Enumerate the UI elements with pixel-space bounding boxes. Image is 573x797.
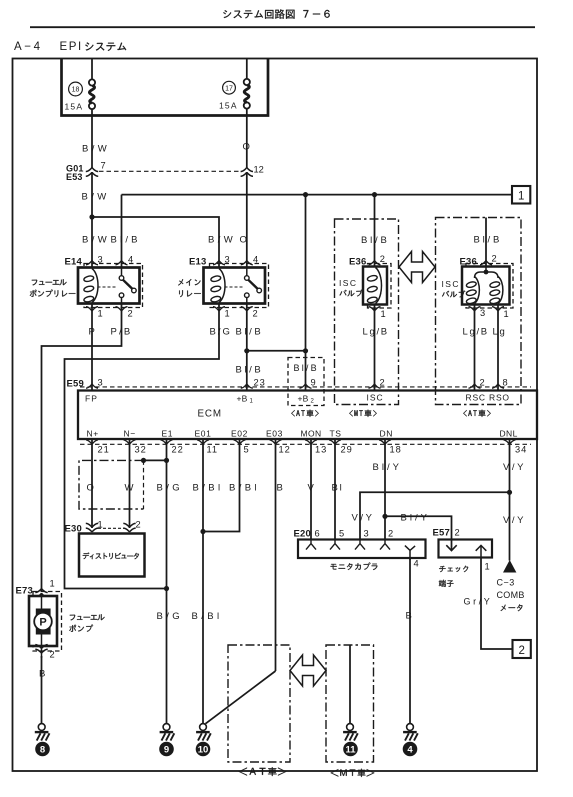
fuse17 circled number — [223, 81, 236, 94]
svg-text:COMB: COMB — [497, 590, 525, 600]
svg-text:B/Bl: B/Bl — [193, 483, 224, 494]
svg-text:Bl: Bl — [332, 483, 344, 494]
E14 switch arm — [123, 280, 133, 289]
pin E14-1 — [86, 307, 98, 312]
pin E13-1 — [213, 307, 225, 312]
svg-text:34: 34 — [515, 445, 527, 455]
svg-text:E53: E53 — [66, 172, 83, 182]
wire Bl/B AT valve feed — [485, 218, 487, 267]
wire Bl/B rail horizontal — [122, 194, 513, 196]
label フューエル — [32, 279, 67, 285]
E13 switch arm — [248, 280, 257, 289]
svg-text:MON: MON — [301, 429, 322, 439]
svg-text:2: 2 — [480, 378, 486, 388]
ECM bottom pin 29 — [329, 440, 341, 445]
svg-text:RSC RSO: RSC RSO — [466, 393, 510, 403]
svg-text:2: 2 — [388, 529, 393, 539]
svg-text:2: 2 — [455, 528, 460, 538]
wire O from fuse17 — [246, 109, 248, 168]
ground number 4 — [403, 742, 418, 757]
junction Bl/Y branch — [382, 514, 387, 519]
pin E13-3 — [213, 260, 225, 265]
svg-text:6: 6 — [315, 529, 320, 539]
wire Bl/B from E13 pin2 — [246, 304, 248, 391]
svg-text:2: 2 — [253, 309, 258, 319]
svg-text:3: 3 — [98, 378, 104, 388]
svg-text:E03: E03 — [266, 429, 283, 439]
section label システム — [85, 42, 126, 51]
ECM bottom pin 32 — [124, 440, 136, 445]
pump wire top — [41, 594, 43, 614]
svg-text:1: 1 — [518, 190, 524, 202]
svg-text:9: 9 — [164, 744, 169, 755]
pin E36AT-3 — [469, 307, 481, 312]
svg-text:B: B — [406, 611, 414, 622]
svg-text:E20: E20 — [294, 529, 312, 540]
svg-text:11: 11 — [345, 744, 356, 755]
svg-text:Bl/B: Bl/B — [236, 365, 264, 376]
wire to ground 11 — [349, 645, 351, 724]
ECM top pin ISC — [369, 384, 381, 389]
svg-text:Bl/Y: Bl/Y — [401, 513, 430, 524]
svg-text:EPI: EPI — [60, 41, 83, 53]
MT variant dash-dot box bottom — [326, 645, 374, 762]
ECM bottom pin 11 — [197, 440, 209, 445]
pin E13-2 — [241, 307, 253, 312]
wire B/W from fuse18 — [91, 109, 93, 168]
E14 switch bottom lead — [121, 298, 123, 304]
E30 connector dashed link — [98, 527, 124, 529]
svg-text:1: 1 — [98, 309, 103, 319]
svg-text:5: 5 — [244, 445, 250, 455]
wire variant link to E1 — [144, 459, 167, 461]
combination meter connector triangle — [503, 560, 516, 573]
ECM bottom pin 5 — [234, 440, 246, 445]
check terminal pin 1 fork — [476, 545, 487, 557]
svg-text:Bl/B: Bl/B — [361, 235, 390, 246]
E13 switch bottom lead — [246, 298, 248, 304]
svg-text:22: 22 — [172, 445, 184, 455]
wire W to distributor — [129, 439, 131, 528]
E13 switch fixed contact top — [245, 276, 250, 281]
ECM bottom pin 21 — [86, 440, 98, 445]
ISC valve MT coil — [367, 268, 382, 304]
svg-text:E01: E01 — [195, 429, 212, 439]
svg-text:B: B — [277, 483, 285, 494]
svg-text:2: 2 — [518, 645, 524, 657]
svg-text:FP: FP — [85, 394, 98, 404]
ECM bottom pin 13 — [305, 440, 317, 445]
wire P from E14 pin1 — [91, 304, 93, 391]
junction variant box corner — [141, 458, 146, 463]
svg-text:Lg/B: Lg/B — [363, 327, 389, 338]
svg-text:17: 17 — [225, 85, 233, 92]
connector E73 pin 2 — [35, 645, 47, 654]
ground number 11 — [343, 742, 358, 757]
pin E13-4 — [241, 260, 253, 265]
svg-text:B/W: B/W — [82, 192, 110, 203]
wire B diagonal to ground 10 — [206, 671, 276, 724]
svg-text:4: 4 — [407, 744, 413, 755]
svg-text:2: 2 — [492, 254, 497, 264]
junction AT valve coil split — [484, 270, 489, 275]
wire V/Y branch — [360, 492, 510, 540]
ECM top connector dashed line — [80, 386, 531, 388]
svg-text:N−: N− — [124, 429, 136, 439]
header rule — [30, 26, 535, 28]
ECM bottom pin 22 — [161, 440, 173, 445]
svg-text:E1: E1 — [162, 429, 174, 439]
variant label MT bottom — [331, 769, 375, 777]
relay E13 body — [204, 268, 266, 304]
svg-text:ISC: ISC — [367, 393, 384, 403]
ECM top pin RSO — [492, 384, 504, 389]
svg-text:P: P — [39, 617, 46, 629]
ISC valve AT body — [462, 267, 510, 305]
junction V/Y on DNL wire — [507, 490, 512, 495]
dashed right edge of variant box — [143, 460, 145, 509]
svg-text:W: W — [125, 483, 136, 494]
wire B/Bl from E01 — [202, 439, 204, 724]
ECM bottom connector dashed line — [80, 443, 531, 445]
ground symbol 9 — [160, 724, 175, 741]
connector G01/E53 pin 7 — [86, 167, 98, 176]
E13 switch top lead — [246, 268, 248, 276]
label ディストリビュータ — [83, 553, 139, 560]
AT-only dashed box for +B2 — [288, 358, 324, 406]
connector E30 pin 1 — [86, 523, 98, 532]
ground number 10 — [196, 742, 211, 757]
svg-text:V: V — [308, 483, 316, 494]
svg-text:V/Y: V/Y — [352, 513, 375, 524]
svg-text:Gr/Y: Gr/Y — [464, 597, 493, 607]
svg-text:Bl/B: Bl/B — [294, 363, 319, 373]
wire Bl/B to +B2 vertical — [305, 195, 307, 390]
ECM top pin +B1 — [241, 384, 253, 389]
svg-text:Bl/B: Bl/B — [111, 235, 141, 246]
svg-text:21: 21 — [98, 445, 110, 455]
variant label AT for RSC RSO — [463, 410, 491, 417]
wire O to relay E13 pin4 — [246, 172, 248, 267]
ISC valve AT connector dashed outline — [466, 264, 513, 309]
relay E13 connector dashed outline — [210, 264, 269, 308]
label 端子 — [439, 580, 454, 587]
coupler terminal x=360 — [355, 541, 365, 550]
wire B from E03 — [275, 439, 277, 671]
svg-text:4: 4 — [414, 559, 419, 569]
wire B/Bl from E02 — [203, 439, 240, 532]
svg-text:1: 1 — [504, 309, 509, 319]
wire fuse17 stub — [246, 59, 248, 80]
ECM top pin RSC — [469, 384, 481, 389]
wire Bl/Y to check terminal — [385, 516, 452, 550]
E14 switch fixed contact top — [119, 276, 124, 281]
svg-text:2: 2 — [380, 254, 385, 264]
svg-text:E59: E59 — [67, 379, 85, 390]
AT variant dash-dot box bottom — [228, 645, 290, 762]
svg-text:15A: 15A — [65, 102, 84, 112]
wire Bl/Y from DN — [384, 439, 386, 540]
wire B to ground 4 — [409, 558, 411, 724]
svg-text:9: 9 — [311, 378, 317, 388]
check terminal entry arrow — [446, 545, 456, 550]
svg-text:V/Y: V/Y — [503, 462, 526, 473]
E14 switch top lead — [121, 268, 123, 276]
junction on E1 wire — [164, 458, 169, 463]
ground symbol 8 — [35, 724, 50, 741]
svg-text:Bl/B: Bl/B — [474, 235, 503, 246]
svg-text:8: 8 — [40, 744, 45, 755]
label フューエル pump — [70, 614, 105, 620]
label ポンプ — [69, 625, 93, 632]
wire Lg to ECM RSO — [497, 305, 499, 391]
E14 switch fixed contact bottom — [119, 293, 124, 298]
junction Bl/B to +B2 link — [244, 348, 249, 353]
pin E14-4 — [116, 260, 128, 265]
svg-text:TS: TS — [330, 429, 342, 439]
svg-text:ISC: ISC — [339, 278, 357, 288]
svg-text:18: 18 — [390, 445, 402, 455]
svg-text:11: 11 — [207, 445, 218, 455]
ECM top pin +B2 — [300, 384, 312, 389]
svg-text:DNL: DNL — [500, 429, 518, 439]
svg-text:23: 23 — [254, 378, 266, 388]
connector link dashed — [99, 170, 239, 172]
svg-text:C−3: C−3 — [497, 578, 515, 588]
monitor coupler body — [298, 540, 426, 559]
page title システム回路図 7-6 — [223, 9, 329, 18]
wire B to ground 8 — [41, 656, 43, 724]
svg-text:B/G: B/G — [157, 483, 184, 494]
wire Bl/B to ISC valve — [374, 195, 376, 267]
svg-text:O: O — [87, 483, 96, 494]
svg-text:B: B — [39, 669, 47, 680]
variant label AT for +B2 — [291, 410, 319, 417]
label メイン — [178, 279, 201, 286]
svg-text:DN: DN — [380, 429, 393, 439]
ECM top pin FP — [86, 384, 98, 389]
sheet reference 2 box — [513, 640, 531, 658]
ECM bottom pin 12 — [270, 440, 282, 445]
variant label AT bottom — [239, 767, 287, 776]
AT-MT interchange arrow bottom — [290, 655, 326, 686]
E13 switch fixed contact bottom — [245, 293, 250, 298]
pin E36-1 — [369, 307, 381, 312]
svg-text:E02: E02 — [231, 429, 248, 439]
svg-text:7: 7 — [101, 161, 106, 171]
svg-text:E57: E57 — [433, 528, 451, 539]
svg-text:29: 29 — [341, 445, 353, 455]
relay E14 coil — [83, 269, 98, 303]
svg-text:12: 12 — [279, 445, 291, 455]
svg-text:+B: +B — [237, 394, 248, 404]
MT-AT interchange arrow — [399, 252, 435, 283]
sheet reference 1 box — [512, 186, 530, 204]
svg-text:2: 2 — [128, 309, 133, 319]
ground symbol 10 — [196, 724, 211, 741]
label メータ — [501, 604, 523, 611]
AT variant dash-dot box upper — [436, 218, 522, 405]
AT valve coil bus — [475, 272, 499, 278]
svg-text:18: 18 — [72, 87, 80, 94]
svg-text:10: 10 — [198, 744, 209, 755]
svg-text:1: 1 — [485, 562, 490, 572]
fuel pump connector dashed outline — [33, 592, 62, 652]
ISC valve MT connector dashed outline — [368, 264, 392, 309]
ISC AT coil 1 — [466, 277, 480, 305]
ECM bottom pin 18 — [379, 440, 391, 445]
svg-text:V/Y: V/Y — [503, 515, 526, 526]
wire B/W continues — [91, 172, 93, 267]
variant label MT for ISC — [349, 410, 377, 417]
label モニタカプラ — [331, 563, 378, 571]
ground number 9 — [159, 742, 174, 757]
svg-text:12: 12 — [254, 165, 264, 175]
svg-text:32: 32 — [135, 445, 147, 455]
label リレー — [179, 290, 201, 297]
fuel pump body — [29, 596, 57, 646]
svg-text:P/B: P/B — [111, 327, 133, 338]
connector E73 pin 1 — [35, 588, 47, 597]
wire V/Y from DNL — [509, 439, 511, 561]
svg-text:ECM: ECM — [198, 409, 222, 420]
coupler terminal x=385 — [380, 541, 390, 550]
svg-text:2: 2 — [380, 378, 386, 388]
wire O to distributor — [91, 439, 93, 528]
ISC valve MT body — [363, 267, 387, 305]
pin E36AT-1 — [492, 307, 504, 312]
ECM body — [78, 391, 537, 440]
MT variant dash-dot box — [335, 219, 399, 405]
svg-text:2: 2 — [136, 520, 141, 530]
E13 coil-switch dashed link — [225, 286, 243, 288]
svg-text:Bl/B: Bl/B — [236, 327, 264, 338]
svg-text:Lg: Lg — [493, 327, 507, 338]
fuse F18 15A — [89, 79, 95, 109]
ground symbol 11 — [343, 724, 358, 741]
junction Bl/B rail to +B2 branch — [303, 192, 308, 197]
wire fuse18 stub — [91, 59, 93, 81]
coupler terminal pin 4 — [405, 546, 415, 560]
wire Lg/B to ECM RSC — [474, 305, 476, 391]
svg-text:2: 2 — [50, 650, 55, 660]
svg-text:E14: E14 — [65, 257, 83, 268]
wire V from MON — [310, 439, 312, 540]
ground number 8 — [35, 742, 50, 757]
svg-text:O: O — [240, 235, 249, 246]
svg-text:Bl/Y: Bl/Y — [373, 462, 402, 473]
svg-text:3: 3 — [364, 529, 369, 539]
svg-text:B/G: B/G — [210, 327, 232, 338]
wire B/G from E1 — [166, 439, 168, 724]
wire Bl/B link +B1 to +B2 — [247, 350, 306, 352]
svg-text:A−4: A−4 — [14, 41, 43, 53]
label バルブ AT — [442, 291, 465, 298]
wire Bl/B rail drop to E14 pin4 — [121, 195, 123, 268]
ground symbol 4 — [403, 724, 418, 741]
relay E13 coil — [210, 269, 225, 303]
pin E14-3 — [86, 260, 98, 265]
svg-text:P: P — [89, 327, 97, 338]
MT variant dash-dot box around distributor wires — [79, 460, 144, 509]
relay E14 body — [78, 268, 140, 304]
svg-text:15A: 15A — [219, 101, 238, 111]
E13 switch arm contact — [257, 288, 262, 293]
connector pin 12 on O wire — [241, 167, 253, 176]
pump motor brushes — [36, 609, 51, 635]
E14 coil-switch dashed link — [98, 286, 118, 288]
pin E36-2 — [369, 260, 381, 265]
pump wire bottom — [41, 631, 43, 659]
pin E36AT-2 — [480, 260, 492, 265]
wire Gr/Y to sheet ref 2 — [481, 558, 513, 650]
E14 switch arm contact — [132, 288, 137, 293]
connector E30 pin 2 — [123, 523, 135, 532]
svg-text:3: 3 — [480, 308, 485, 318]
wire B/G from E13 pin1 — [65, 304, 220, 589]
svg-text:B/G: B/G — [157, 611, 184, 622]
fuse box (open top) — [62, 59, 269, 116]
coupler terminal x=311 — [306, 541, 316, 550]
svg-text:ISC: ISC — [442, 279, 460, 289]
ISC AT coil 2 — [489, 277, 503, 305]
ECM bottom pin 34 — [504, 440, 516, 445]
label バルブ MT — [340, 290, 363, 297]
wire B/W branch to E13 pin3 — [92, 217, 219, 268]
svg-text:1: 1 — [225, 309, 230, 319]
label チェック — [439, 566, 468, 572]
svg-text:1: 1 — [50, 579, 55, 589]
svg-text:E13: E13 — [189, 257, 207, 268]
coupler terminal x=335 — [330, 541, 340, 550]
fuse18 circled number — [69, 82, 83, 96]
wire Lg/B to ECM ISC — [374, 305, 376, 391]
svg-text:B/W: B/W — [208, 235, 236, 246]
ISC AT feed stub — [485, 267, 487, 273]
svg-text:13: 13 — [315, 445, 327, 455]
svg-text:N+: N+ — [87, 429, 99, 439]
svg-text:B/Bl: B/Bl — [229, 483, 260, 494]
svg-text:1: 1 — [381, 309, 386, 319]
svg-text:B/W: B/W — [82, 144, 110, 155]
distributor body — [79, 534, 145, 577]
svg-text:8: 8 — [503, 378, 509, 388]
wire Bl from TS — [334, 439, 336, 540]
wire P/B from E14 pin2 — [42, 304, 122, 593]
junction Bl/B rail to ISC branch — [372, 192, 377, 197]
svg-text:+B: +B — [298, 394, 309, 404]
pump motor circle P — [34, 613, 52, 631]
junction B/W split — [89, 214, 94, 219]
label ポンプリレー — [30, 290, 76, 298]
junction B/G joins E1 wire — [164, 586, 169, 591]
junction E01-E02 — [200, 529, 205, 534]
svg-text:5: 5 — [339, 529, 344, 539]
relay E14 connector dashed outline — [84, 264, 143, 308]
pin E14-2 — [116, 307, 128, 312]
check terminal body — [439, 540, 493, 558]
svg-text:Lg/B: Lg/B — [463, 327, 489, 338]
junction +B2 branch — [303, 348, 308, 353]
svg-text:B/W: B/W — [82, 235, 110, 246]
fuse F17 15A — [244, 79, 250, 109]
svg-text:B/Bl: B/Bl — [192, 611, 223, 622]
